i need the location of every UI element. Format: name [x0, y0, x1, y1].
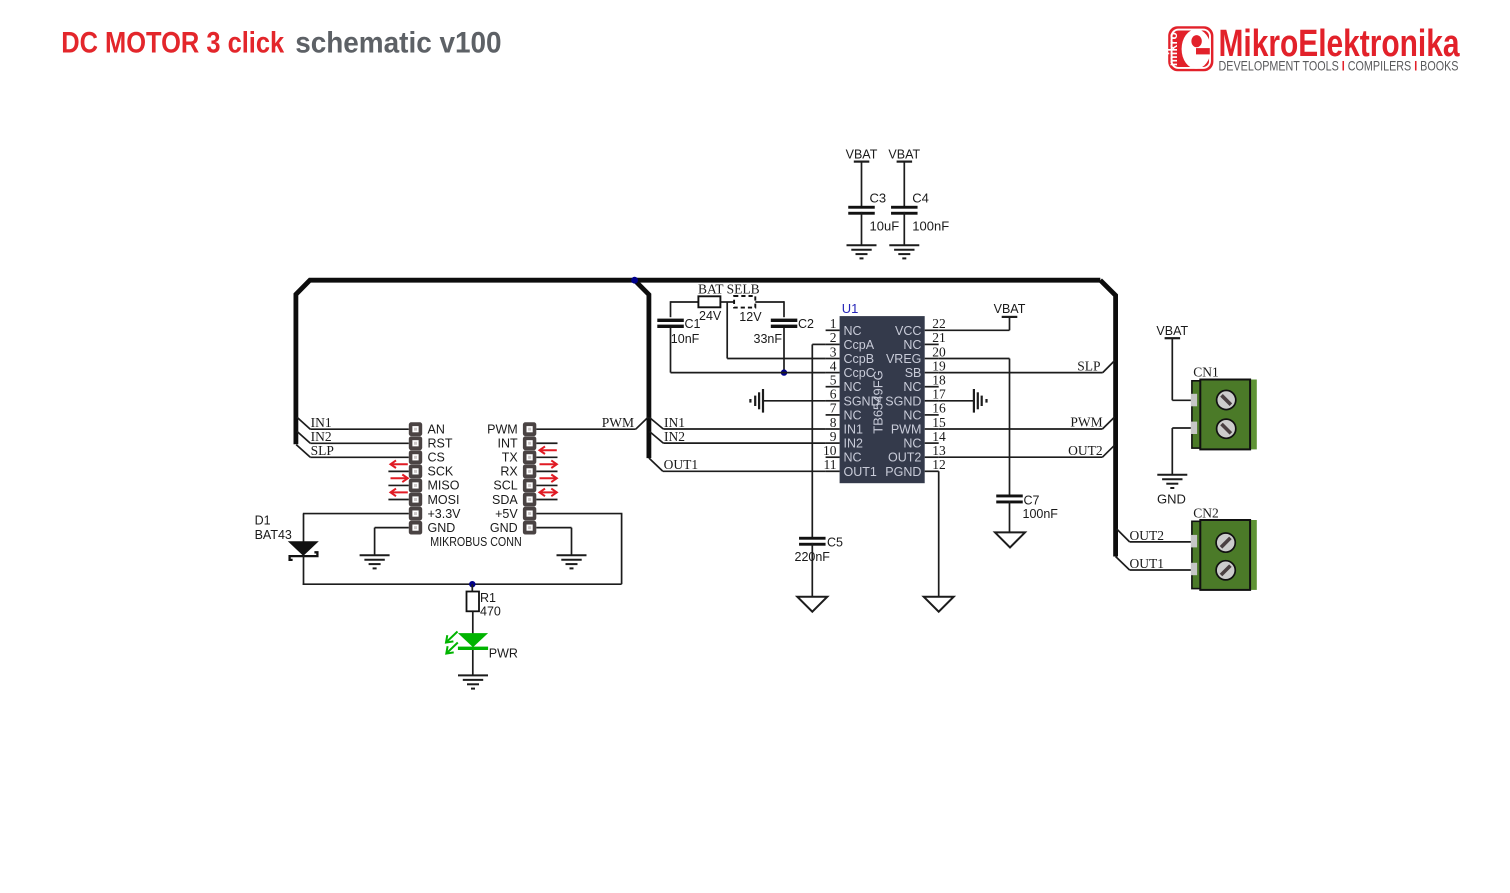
svg-text:NC: NC — [844, 451, 862, 465]
svg-text:VCC: VCC — [895, 324, 921, 338]
svg-text:3: 3 — [830, 344, 837, 359]
svg-text:mikro: mikro — [1166, 32, 1180, 66]
junction on top bus — [631, 277, 638, 284]
pin stub SCL — [536, 484, 557, 486]
arrow right INT — [540, 446, 557, 454]
power ground (PGND) — [924, 597, 954, 612]
svg-text:NC: NC — [844, 380, 862, 394]
wire CcpA (pin 2 down to C5) — [812, 344, 825, 537]
ground (CN1) with GND label — [1157, 475, 1187, 507]
signal ground (pin 17, pointing right) — [974, 389, 987, 413]
svg-text:MIKROBUS CONN: MIKROBUS CONN — [430, 535, 522, 549]
svg-text:schematic v100: schematic v100 — [295, 27, 501, 60]
signal ground (pin 6, pointing left) — [750, 389, 763, 413]
wire VCC pin 22 to VBAT — [939, 317, 1010, 330]
ground (C4) — [889, 245, 919, 258]
pin stub RX — [536, 470, 557, 472]
svg-text:PWM: PWM — [487, 423, 518, 437]
pin stub SDA — [536, 499, 557, 501]
pin stubs right 22-12 — [925, 330, 939, 471]
svg-text:15: 15 — [932, 415, 946, 430]
svg-text:C3: C3 — [870, 190, 887, 205]
terminal block CN2 — [1191, 505, 1257, 590]
svg-text:20: 20 — [932, 344, 946, 359]
svg-text:SLP: SLP — [1077, 358, 1100, 373]
power flag VBAT (VCC) — [994, 302, 1026, 317]
svg-text:SDA: SDA — [492, 493, 518, 507]
svg-text:OUT1: OUT1 — [1130, 556, 1165, 571]
svg-text:OUT2: OUT2 — [888, 451, 921, 465]
wire OUT2 (bus to CN2) — [1117, 529, 1192, 542]
terminal block CN1 — [1191, 365, 1257, 450]
svg-text:22: 22 — [932, 316, 946, 331]
pin stub SCK — [388, 470, 408, 472]
svg-text:R1: R1 — [480, 591, 496, 605]
svg-text:8: 8 — [830, 415, 837, 430]
diode D1 BAT43 (schottky) — [255, 514, 319, 560]
wire bottom rail (D1 to +5V) — [303, 514, 623, 585]
wire GND right header — [536, 528, 571, 556]
arrow right RX — [540, 475, 557, 483]
ground (right header) — [557, 555, 587, 568]
svg-text:PWM: PWM — [891, 423, 922, 437]
wire +3.3V to D1 — [303, 514, 409, 542]
wire PWM pin 15 to bus — [939, 417, 1115, 429]
ground (left header) — [360, 555, 390, 568]
svg-text:CN2: CN2 — [1193, 505, 1219, 520]
wire C1 top to BAT — [671, 301, 699, 317]
wire CcpC (C1 to pin 4) — [671, 372, 826, 374]
svg-text:VREG: VREG — [886, 352, 921, 366]
wire BAT/SELB junction down to CcpB — [726, 302, 728, 359]
wire C4 to ground — [903, 212, 905, 246]
svg-text:SGND: SGND — [885, 394, 921, 408]
resistor R1 470 — [467, 591, 501, 619]
svg-text:IN2: IN2 — [311, 429, 332, 444]
wire OUT1 (bus to pin 11) — [649, 458, 826, 471]
MikroElektronika logo badge — [1166, 26, 1213, 71]
svg-text:OUT2: OUT2 — [1068, 443, 1103, 458]
pin stub INT — [536, 442, 557, 444]
arrow left MISO out — [391, 475, 408, 483]
svg-text:16: 16 — [932, 401, 946, 416]
svg-text:OUT1: OUT1 — [664, 457, 699, 472]
pin stubs left 1-11 — [826, 330, 840, 471]
wire C7 to power ground — [1009, 501, 1011, 534]
wire junction to R1 — [471, 584, 473, 591]
svg-text:NC: NC — [903, 437, 921, 451]
svg-text:10nF: 10nF — [671, 332, 700, 346]
power ground (C5) — [797, 597, 827, 612]
svg-text:BAT43: BAT43 — [255, 528, 292, 542]
wire SGND pin 6 — [763, 400, 826, 402]
svg-text:C2: C2 — [798, 317, 814, 331]
junction C2 / CcpC — [781, 369, 787, 375]
wire PGND pin 12 to power ground — [938, 471, 940, 597]
svg-text:SCK: SCK — [428, 465, 454, 479]
svg-text:12: 12 — [932, 457, 946, 472]
svg-text:SCL: SCL — [493, 479, 517, 493]
svg-text:PWM: PWM — [1070, 415, 1102, 430]
svg-text:1: 1 — [830, 316, 837, 331]
svg-text:VBAT: VBAT — [1156, 324, 1188, 338]
svg-text:21: 21 — [932, 330, 946, 345]
svg-text:C5: C5 — [827, 536, 843, 550]
svg-text:AN: AN — [428, 423, 445, 437]
connector MIKROBUS CONN left header — [409, 422, 461, 535]
arrow left MOSI in — [391, 489, 408, 497]
wire IN2 (bus to pin 9) — [650, 432, 826, 444]
ground (C3) — [847, 245, 877, 258]
svg-text:OUT1: OUT1 — [844, 465, 877, 479]
svg-text:24V: 24V — [699, 309, 722, 323]
svg-text:GND: GND — [1157, 492, 1186, 507]
pin stub TX — [536, 456, 557, 458]
MikroElektronika wordmark — [1219, 23, 1461, 74]
wire IN1 (bus to pin 8) — [650, 418, 826, 430]
arrow left SCK in — [391, 460, 408, 468]
svg-text:MOSI: MOSI — [428, 493, 460, 507]
svg-text:CcpA: CcpA — [844, 338, 875, 352]
wire C5 to power ground — [811, 543, 813, 598]
svg-text:C4: C4 — [912, 190, 929, 205]
pin stub MISO — [388, 484, 408, 486]
power flag VBAT (C4) — [888, 148, 920, 162]
svg-text:NC: NC — [903, 380, 921, 394]
svg-text:VBAT: VBAT — [994, 302, 1026, 316]
wire SGND pin 17 — [939, 400, 974, 402]
svg-text:12V: 12V — [739, 310, 762, 324]
wire C3 to ground — [861, 212, 863, 246]
wire D1 to bottom rail — [303, 556, 305, 585]
wire C2 to CcpC junction — [783, 328, 785, 373]
svg-text:MISO: MISO — [428, 479, 460, 493]
wire OUT1 (bus to CN2) — [1116, 557, 1192, 571]
svg-text:5: 5 — [830, 373, 837, 388]
wire VBAT to CN1 pin 1 — [1172, 338, 1192, 400]
svg-text:PGND: PGND — [885, 465, 921, 479]
svg-text:CN1: CN1 — [1193, 365, 1219, 380]
svg-text:DEVELOPMENT TOOLS I COMPILERS: DEVELOPMENT TOOLS I COMPILERS I BOOKS — [1219, 58, 1459, 74]
svg-text:DC MOTOR 3 click: DC MOTOR 3 click — [61, 27, 284, 60]
svg-text:PWM: PWM — [602, 415, 634, 430]
svg-text:IN2: IN2 — [664, 429, 685, 444]
jumper BAT (24V) — [698, 296, 722, 323]
svg-text:U1: U1 — [842, 301, 859, 316]
wire SELB to C2 — [755, 301, 784, 317]
wire VREG pin 20 down to C7 — [939, 359, 1010, 495]
bus right drop for SLP/PWM/OUT2 to CN2 — [1100, 280, 1115, 556]
pin numbers right 22-12 — [932, 316, 946, 472]
capacitor C2 33nF — [754, 317, 815, 346]
ground (LED) — [458, 675, 488, 688]
capacitor C5 220nF — [795, 536, 844, 564]
wire R1 to LED — [472, 611, 474, 633]
svg-text:SB: SB — [905, 366, 922, 380]
svg-text:PWR: PWR — [489, 647, 518, 661]
arrow right SCL/SDA — [540, 489, 557, 497]
svg-text:13: 13 — [932, 443, 946, 458]
svg-text:OUT2: OUT2 — [1130, 528, 1165, 543]
svg-text:IN1: IN1 — [844, 423, 864, 437]
power flag VBAT (C3) — [846, 148, 878, 162]
svg-text:100nF: 100nF — [912, 219, 949, 234]
svg-text:VBAT: VBAT — [888, 148, 920, 162]
wire IN1 (bus to AN) — [297, 417, 409, 429]
wire LED to ground — [472, 650, 474, 676]
svg-text:C1: C1 — [685, 317, 701, 331]
svg-text:INT: INT — [498, 437, 519, 451]
svg-text:TX: TX — [502, 451, 519, 465]
wire PWM (header to bus) — [536, 417, 648, 429]
svg-text:IN1: IN1 — [664, 415, 685, 430]
svg-text:C7: C7 — [1024, 494, 1040, 508]
capacitor C1 10nF — [657, 317, 700, 346]
LED PWR (green) — [446, 632, 518, 661]
svg-text:TB6549FG: TB6549FG — [871, 370, 886, 434]
svg-text:NC: NC — [844, 408, 862, 422]
wire VBAT to C4 — [903, 162, 905, 206]
svg-text:GND: GND — [490, 521, 518, 535]
bus middle drop for IN1/IN2/OUT1/PWM — [635, 280, 649, 458]
jumper SELB (12V, dashed) — [734, 296, 762, 324]
svg-text:NC: NC — [903, 338, 921, 352]
svg-text:CS: CS — [428, 451, 445, 465]
junction bottom rail / R1 — [469, 581, 475, 587]
op-amp/driver IC U1 TB6549FG — [840, 301, 925, 483]
wire VBAT to C3 — [861, 162, 863, 206]
svg-text:+3.3V: +3.3V — [428, 507, 462, 521]
wire BAT to SELB — [720, 301, 734, 303]
svg-text:VBAT: VBAT — [846, 148, 878, 162]
svg-text:17: 17 — [932, 387, 946, 402]
wire SB pin 19 to bus (SLP) — [939, 361, 1115, 373]
wire IN2 (bus to RST) — [297, 431, 409, 443]
svg-text:RX: RX — [500, 465, 518, 479]
capacitor C4 — [891, 190, 949, 233]
svg-text:7: 7 — [830, 401, 837, 416]
svg-text:D1: D1 — [255, 514, 271, 528]
svg-text:RST: RST — [428, 437, 453, 451]
svg-text:BAT SELB: BAT SELB — [698, 282, 760, 297]
connector MIKROBUS CONN right header — [487, 422, 536, 535]
arrow right TX — [540, 460, 557, 468]
svg-text:6: 6 — [830, 387, 837, 402]
svg-text:14: 14 — [932, 429, 946, 444]
svg-text:4: 4 — [830, 358, 837, 373]
svg-text:SLP: SLP — [311, 443, 334, 458]
svg-text:10: 10 — [823, 443, 837, 458]
svg-text:9: 9 — [830, 429, 837, 444]
svg-text:NC: NC — [903, 408, 921, 422]
title: DC MOTOR 3 click schematic v100 — [61, 27, 501, 60]
svg-text:18: 18 — [932, 373, 946, 388]
svg-text:10uF: 10uF — [870, 219, 900, 234]
wire OUT2 pin 13 to bus — [939, 445, 1115, 457]
svg-text:100nF: 100nF — [1023, 507, 1059, 521]
svg-text:+5V: +5V — [495, 507, 518, 521]
svg-text:IN2: IN2 — [844, 437, 864, 451]
svg-text:GND: GND — [428, 521, 456, 535]
svg-text:2: 2 — [830, 330, 837, 345]
capacitor C7 100nF — [996, 494, 1058, 522]
svg-text:IN1: IN1 — [311, 415, 332, 430]
svg-text:NC: NC — [844, 324, 862, 338]
wire CcpB (to pin 3) — [727, 358, 825, 360]
svg-text:470: 470 — [480, 605, 501, 619]
pin numbers left 1-11 — [823, 316, 837, 472]
wire SLP (bus to CS) — [296, 445, 409, 458]
pin stub MOSI — [388, 499, 408, 501]
svg-text:19: 19 — [932, 358, 946, 373]
power ground (C7) — [995, 532, 1025, 547]
wire CN1 pin 2 to ground — [1172, 428, 1192, 475]
capacitor C3 — [848, 190, 899, 233]
wire C1 to CcpC — [670, 328, 672, 373]
bus left: top rail and left drop for IN1/IN2/SLP — [296, 280, 1100, 444]
wire GND left header — [375, 528, 409, 556]
svg-text:CcpB: CcpB — [844, 352, 875, 366]
svg-text:33nF: 33nF — [754, 332, 783, 346]
svg-text:11: 11 — [824, 457, 837, 472]
power flag VBAT (CN1) — [1156, 324, 1188, 338]
